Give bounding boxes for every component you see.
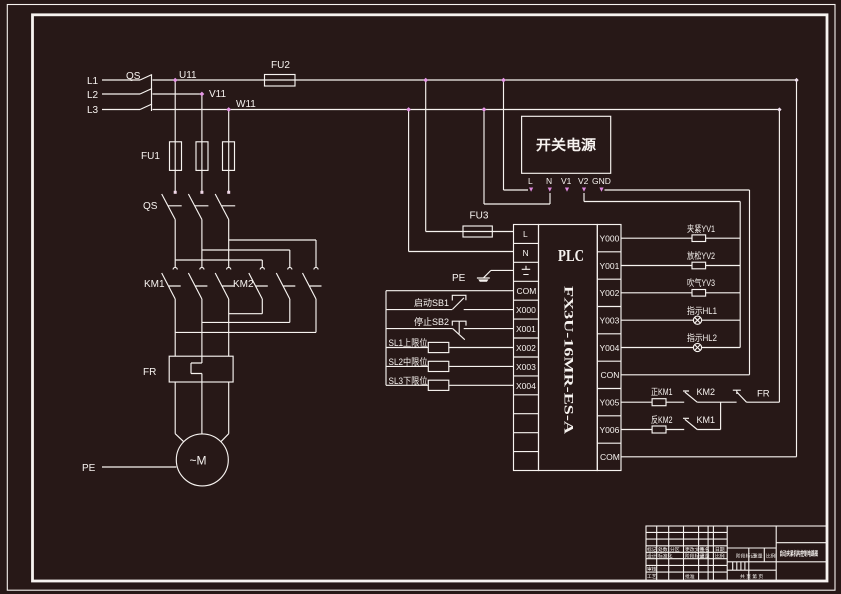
svg-text:正KM1: 正KM1 xyxy=(651,387,673,397)
svg-text:X004: X004 xyxy=(516,381,536,391)
svg-text:Y004: Y004 xyxy=(600,343,620,353)
svg-text:FR: FR xyxy=(143,367,156,378)
svg-text:设计: 设计 xyxy=(647,553,657,560)
svg-text:比例: 比例 xyxy=(715,553,725,560)
svg-text:KM2: KM2 xyxy=(233,279,254,290)
svg-text:Y000: Y000 xyxy=(600,234,620,244)
svg-text:SL3下限位: SL3下限位 xyxy=(389,375,428,386)
svg-text:处数: 处数 xyxy=(658,546,668,553)
svg-text:X002: X002 xyxy=(516,343,536,353)
svg-text:标记: 标记 xyxy=(647,546,657,553)
svg-text:KM2: KM2 xyxy=(697,387,716,397)
svg-text:分区: 分区 xyxy=(670,546,680,553)
svg-text:COM: COM xyxy=(517,286,537,296)
svg-text:L2: L2 xyxy=(87,90,99,101)
svg-text:FU3: FU3 xyxy=(470,211,489,222)
svg-text:标准化: 标准化 xyxy=(658,553,673,560)
svg-text:工艺: 工艺 xyxy=(647,574,657,580)
svg-text:QS: QS xyxy=(126,71,141,82)
svg-text:FX3U-16MR-ES-A: FX3U-16MR-ES-A xyxy=(562,286,577,435)
svg-text:启动SB1: 启动SB1 xyxy=(414,297,449,308)
svg-text:L: L xyxy=(528,176,533,186)
svg-text:指示HL1: 指示HL1 xyxy=(687,305,717,316)
svg-text:FU2: FU2 xyxy=(271,60,290,71)
svg-text:批准: 批准 xyxy=(685,573,695,580)
svg-text:CON: CON xyxy=(601,370,620,380)
svg-text:Y003: Y003 xyxy=(600,316,620,326)
svg-text:自动夹紧机构控制电路图: 自动夹紧机构控制电路图 xyxy=(780,549,819,558)
svg-text:Y002: Y002 xyxy=(600,288,620,298)
svg-text:比例: 比例 xyxy=(766,553,776,560)
svg-text:V2: V2 xyxy=(578,176,589,186)
svg-text:Y001: Y001 xyxy=(600,261,620,271)
svg-text:W11: W11 xyxy=(236,99,256,110)
svg-text:N: N xyxy=(523,248,529,258)
svg-text:FR: FR xyxy=(757,389,770,400)
svg-text:吹气YV3: 吹气YV3 xyxy=(687,277,715,288)
svg-text:L1: L1 xyxy=(87,76,99,87)
svg-text:反KM2: 反KM2 xyxy=(651,415,673,425)
svg-text:KM1: KM1 xyxy=(697,415,716,425)
svg-text:SL1上限位: SL1上限位 xyxy=(389,337,428,348)
svg-text:L3: L3 xyxy=(87,105,99,116)
svg-text:GND: GND xyxy=(592,176,611,186)
svg-text:审核: 审核 xyxy=(647,566,657,573)
svg-text:COM: COM xyxy=(600,452,620,462)
svg-text:开关电源: 开关电源 xyxy=(536,137,596,153)
svg-text:X000: X000 xyxy=(516,305,536,315)
svg-text:L: L xyxy=(523,229,528,239)
svg-text:指示HL2: 指示HL2 xyxy=(687,332,717,343)
svg-text:PE: PE xyxy=(452,273,466,284)
svg-text:放松YV2: 放松YV2 xyxy=(687,250,715,261)
svg-text:~M: ~M xyxy=(190,454,207,468)
svg-text:U11: U11 xyxy=(179,70,197,81)
svg-text:停止SB2: 停止SB2 xyxy=(414,316,449,327)
svg-text:FU1: FU1 xyxy=(141,151,160,162)
svg-text:Y006: Y006 xyxy=(600,425,620,435)
svg-text:Y005: Y005 xyxy=(600,398,620,408)
svg-text:V11: V11 xyxy=(209,89,226,100)
svg-text:重量: 重量 xyxy=(700,553,710,560)
svg-text:日期: 日期 xyxy=(715,547,725,553)
svg-text:重量: 重量 xyxy=(753,553,763,560)
svg-text:QS: QS xyxy=(143,201,158,212)
svg-text:N: N xyxy=(546,176,552,186)
svg-text:V1: V1 xyxy=(561,176,572,186)
svg-text:X003: X003 xyxy=(516,362,536,372)
svg-text:共 页 第 页: 共 页 第 页 xyxy=(740,573,763,580)
svg-text:PE: PE xyxy=(82,463,96,474)
svg-text:SL2中限位: SL2中限位 xyxy=(389,356,428,367)
svg-text:夹紧YV1: 夹紧YV1 xyxy=(687,223,715,234)
svg-text:PLC: PLC xyxy=(558,246,584,265)
svg-text:X001: X001 xyxy=(516,324,536,334)
svg-text:签名: 签名 xyxy=(700,546,710,553)
svg-text:KM1: KM1 xyxy=(144,279,165,290)
